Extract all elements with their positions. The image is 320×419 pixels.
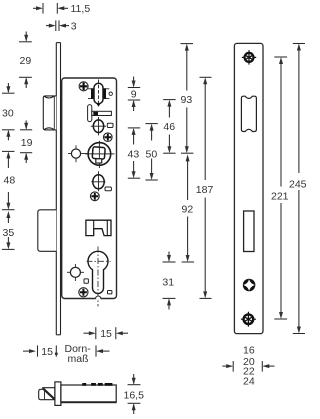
svg-text:maß: maß <box>68 353 89 365</box>
notch in case bottom edge <box>96 296 101 299</box>
dim 48 <box>2 151 15 209</box>
dim 92 <box>182 154 194 262</box>
svg-text:93: 93 <box>181 94 193 106</box>
svg-text:15: 15 <box>41 346 53 358</box>
faceplate top screw <box>242 50 256 64</box>
svg-text:35: 35 <box>3 227 15 239</box>
latch follower assembly <box>88 80 109 107</box>
small circle right of follower <box>109 92 112 95</box>
svg-text:16,5: 16,5 <box>124 390 145 402</box>
dim 3 <box>46 20 69 31</box>
dim 46 <box>163 100 175 154</box>
svg-text:30: 30 <box>2 107 14 119</box>
screw Q3 <box>90 192 99 201</box>
svg-text:50: 50 <box>146 148 158 160</box>
svg-text:9: 9 <box>131 88 137 100</box>
bottom view: rivet tabs <box>82 383 112 386</box>
handle follower (square nut) <box>85 141 115 168</box>
dim 93 <box>181 44 194 154</box>
dim 9 <box>128 77 140 112</box>
dim 221 <box>274 57 287 319</box>
screw Q1 top-left of case <box>79 82 88 91</box>
svg-text:245: 245 <box>289 179 307 191</box>
svg-text:24: 24 <box>243 375 255 387</box>
dim 16,5 <box>128 374 141 414</box>
svg-text:92: 92 <box>182 204 194 216</box>
dim 245 <box>293 44 305 334</box>
dim 30 <box>2 83 15 140</box>
faceplate deadbolt opening <box>244 211 254 252</box>
small square right of upper oval <box>107 123 113 127</box>
dim 187 <box>200 77 212 298</box>
svg-text:43: 43 <box>128 148 140 160</box>
upper fixing hole (oval) <box>91 117 106 135</box>
svg-text:29: 29 <box>20 55 32 67</box>
svg-text:15: 15 <box>100 328 112 340</box>
faceplate side view <box>56 43 60 335</box>
dim 11,5 <box>33 3 68 14</box>
dim 15 right (cylinder center to case back) <box>84 327 129 339</box>
screw Q4 <box>79 288 88 297</box>
bottom view: faceplate section <box>55 382 61 406</box>
svg-text:16: 16 <box>243 345 255 357</box>
dim 50 <box>145 124 157 180</box>
latch bolt (side view, spool shape) <box>43 96 56 130</box>
small square B <box>108 291 112 294</box>
faceplate cylinder screw <box>243 279 256 292</box>
bottom view: latch bolt <box>39 388 55 400</box>
faceplate latch opening <box>241 96 256 131</box>
euro profile cylinder hole <box>87 247 111 307</box>
dim 31 <box>163 252 176 310</box>
dim 35 <box>2 211 15 249</box>
svg-text:46: 46 <box>163 121 175 133</box>
deadbolt thrown (side view protrusion) <box>38 210 57 252</box>
svg-text:31: 31 <box>162 277 174 289</box>
svg-text:11,5: 11,5 <box>71 3 91 15</box>
faceplate bottom screw <box>241 312 256 327</box>
screw Q2 <box>104 133 113 142</box>
dim 16/20/22/24 stack <box>222 361 274 372</box>
svg-text:221: 221 <box>271 190 289 202</box>
crosshair hole left of follower <box>68 145 87 162</box>
svg-text:3: 3 <box>71 20 77 32</box>
latch lever (T-shape) <box>88 105 112 122</box>
faceplate front view <box>234 43 263 333</box>
svg-text:48: 48 <box>4 175 16 187</box>
dim 43 <box>128 128 140 178</box>
lower fixing hole (oval) <box>91 171 105 191</box>
dim 19 <box>20 120 32 163</box>
lock case <box>62 78 117 299</box>
dim 15 left + Dornmass <box>23 345 110 356</box>
crosshair hole left of cylinder <box>67 264 84 281</box>
small square A <box>84 279 88 283</box>
deadbolt inside case <box>86 220 111 235</box>
small square right of lower oval <box>105 187 111 191</box>
svg-text:187: 187 <box>196 184 214 196</box>
dim 29 <box>19 32 32 89</box>
bottom view: lock body <box>61 385 116 403</box>
svg-text:19: 19 <box>21 137 33 149</box>
